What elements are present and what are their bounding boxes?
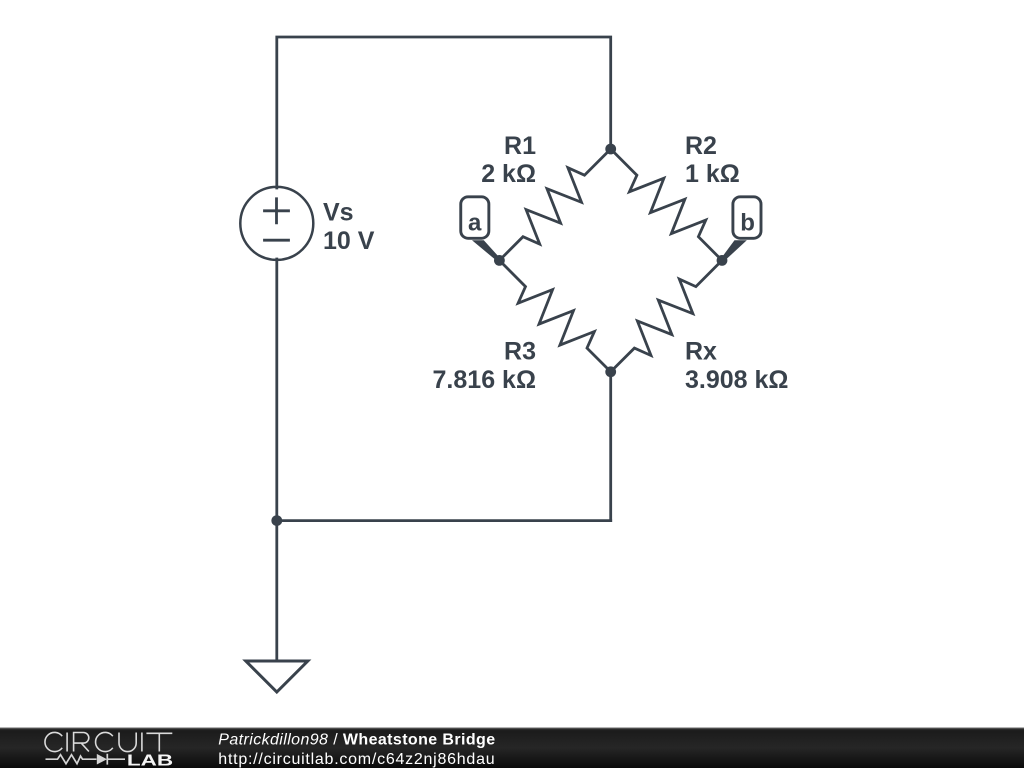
junction bottom-left — [271, 515, 282, 526]
svg-text:R2: R2 — [685, 132, 717, 160]
node bottom — [605, 366, 616, 377]
C — [45, 732, 62, 751]
svg-text:http://circuitlab.com/c64z2nj8: http://circuitlab.com/c64z2nj86hdau — [218, 751, 495, 768]
resistor Rx — [611, 260, 722, 371]
svg-text:3.908 kΩ: 3.908 kΩ — [685, 366, 788, 394]
U — [119, 733, 136, 752]
logo diode triangle — [97, 754, 107, 765]
terminal a box — [461, 197, 489, 239]
resistor R3 — [499, 260, 610, 371]
plus sign — [265, 199, 289, 223]
wire: bridge bottom to bottom horizontal — [609, 372, 612, 521]
logo resistor-diode glyph — [46, 754, 126, 765]
svg-text:Patrickdillon98 / Wheatstone B: Patrickdillon98 / Wheatstone Bridge — [218, 731, 495, 748]
svg-text:10 V: 10 V — [323, 227, 375, 255]
svg-text:R3: R3 — [504, 337, 536, 365]
terminal a pointer — [472, 240, 501, 262]
R — [74, 733, 89, 752]
svg-text:R1: R1 — [504, 132, 536, 160]
svg-text:LAB: LAB — [127, 752, 173, 768]
T — [146, 733, 172, 751]
resistor R1 — [499, 149, 610, 260]
svg-text:Rx: Rx — [685, 337, 717, 365]
ground — [246, 661, 308, 692]
svg-text:Vs: Vs — [323, 198, 354, 226]
node top — [605, 144, 616, 155]
node b (right) — [717, 255, 728, 266]
svg-text:1 kΩ: 1 kΩ — [685, 160, 740, 188]
terminal b box — [733, 197, 761, 239]
resistor R2 — [611, 149, 722, 260]
wire: junction to ground — [275, 521, 278, 661]
logo CIRCUIT (drawn strokes) — [45, 732, 172, 751]
svg-text:7.816 kΩ: 7.816 kΩ — [433, 366, 536, 394]
I — [66, 733, 68, 752]
wire: source bottom to junction — [275, 259, 278, 521]
voltage source Vs circle — [240, 187, 313, 260]
I — [141, 733, 143, 752]
svg-text:a: a — [468, 209, 482, 236]
svg-text:2 kΩ: 2 kΩ — [481, 160, 536, 188]
wire top loop: source top to bridge top — [277, 37, 611, 188]
svg-text:b: b — [740, 209, 755, 236]
node a (left) — [494, 255, 505, 266]
wire: bottom horizontal — [277, 519, 611, 522]
C — [96, 732, 113, 751]
terminal b pointer — [721, 240, 747, 261]
minus sign — [265, 239, 289, 242]
